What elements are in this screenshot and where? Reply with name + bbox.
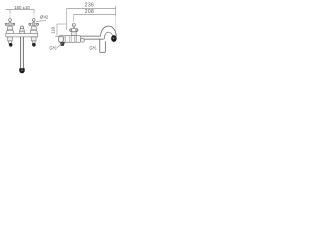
side view: valve body cylinder [59, 36, 81, 43]
extension line right (wall/tip) [115, 6, 117, 16]
svg-text:150 ±10: 150 ±10 [14, 5, 30, 10]
side view: hose stub G1/2 [100, 39, 106, 52]
svg-text:Ø42: Ø42 [40, 14, 49, 19]
dimension line 208 [74, 14, 116, 16]
leader line for Ø42 [36, 20, 46, 21]
extension line left handle [9, 13, 11, 19]
extension line right handle [33, 13, 35, 19]
side view: body rings [63, 36, 76, 42]
front view: aerator tip [19, 68, 24, 73]
dimension line 236 (side view) [67, 8, 116, 10]
front view: right cross handle [29, 19, 39, 37]
extension line 208 left end [73, 15, 75, 23]
dimension line 150±10 (front view top) [6, 10, 35, 14]
front view: body tube [6, 33, 38, 37]
vertical dimension line (height) [56, 24, 58, 36]
side view: union nut below left end [60, 42, 65, 46]
front view: left cross handle [5, 19, 15, 37]
side view: diverter knob under pipe [80, 38, 84, 42]
front view: down tube [21, 37, 24, 69]
svg-text:236: 236 [85, 3, 94, 9]
svg-text:110: 110 [51, 26, 56, 33]
side view: swan-neck arc inner [104, 32, 113, 39]
side view: cross handle (edge-on) [70, 24, 78, 36]
leader line G1/2 left [56, 43, 62, 48]
svg-text:208: 208 [85, 9, 94, 15]
side view: left end cap [58, 36, 63, 42]
side view: aerator blob [111, 35, 117, 42]
extension line left (body face) [66, 9, 68, 31]
side view: spout pipe [80, 36, 103, 39]
front view: right union below valve [31, 37, 36, 47]
vertical dimension lower tick [55, 35, 58, 37]
vertical dimension extension [57, 23, 67, 25]
side view: swan-neck arc outer [101, 26, 117, 36]
front view: left union below valve [8, 37, 13, 47]
svg-text:G½: G½ [49, 45, 56, 50]
front view: centre spout column [20, 26, 25, 34]
svg-text:G½: G½ [89, 45, 96, 50]
